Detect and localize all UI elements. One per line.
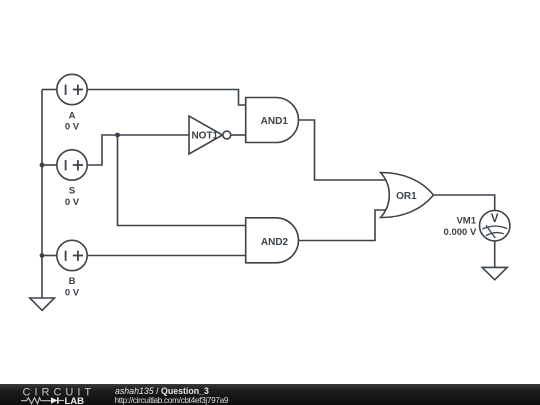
voltmeter VM1: [480, 211, 510, 241]
label VM1 value 0.000 V: [444, 227, 477, 238]
svg-text:AND2: AND2: [261, 237, 289, 248]
label B: [69, 276, 76, 287]
svg-text:0 V: 0 V: [65, 122, 80, 133]
svg-text:CIRCUIT: CIRCUIT: [23, 386, 96, 398]
wire junction to AND2 top input: [118, 135, 246, 226]
wire A left: [42, 89, 57, 91]
wire left rail: [41, 90, 43, 299]
logo CircuitLab: [21, 386, 95, 405]
label NOT1: [191, 131, 218, 142]
ground G2: [482, 267, 507, 279]
node junction S-NOT1: [115, 133, 120, 138]
wire A to AND1 top input: [87, 90, 246, 106]
svg-text:http://circuitlab.com/cbt4ef3j: http://circuitlab.com/cbt4ef3j797a9: [115, 395, 229, 405]
label OR1: [396, 191, 417, 202]
wire B left: [42, 255, 57, 257]
label AND2: [261, 237, 289, 248]
voltage source S: [57, 150, 87, 180]
footer title line: [115, 386, 209, 396]
label AND1: [261, 116, 289, 127]
label A: [69, 111, 76, 122]
voltage source A: [57, 74, 87, 104]
and-gate AND1: [246, 98, 299, 143]
label B value 0 V: [65, 288, 80, 299]
wire OR1 output to VM1: [434, 195, 495, 211]
label S value 0 V: [65, 197, 80, 208]
wire NOT1 output to AND1 bottom input: [231, 134, 246, 136]
wire AND1 output to OR1 top input: [299, 120, 390, 180]
node junction rail-B: [40, 253, 45, 258]
voltage source B: [57, 240, 87, 270]
wire AND2 output to OR1 bottom input: [299, 210, 390, 241]
wire S left: [42, 164, 57, 166]
svg-text:B: B: [69, 276, 76, 287]
and-gate AND2: [246, 218, 299, 263]
svg-text:OR1: OR1: [396, 191, 417, 202]
inverter NOT1: [189, 116, 231, 154]
svg-text:S: S: [69, 186, 75, 197]
footer bar: [0, 384, 540, 405]
svg-text:V: V: [491, 213, 499, 225]
label S: [69, 186, 75, 197]
svg-text:0 V: 0 V: [65, 288, 80, 299]
wire VM1 to ground: [494, 241, 496, 268]
label A value 0 V: [65, 122, 80, 133]
svg-text:NOT1: NOT1: [191, 131, 218, 142]
wire B to AND2 bottom input: [87, 255, 246, 257]
svg-text:0.000 V: 0.000 V: [444, 227, 477, 238]
wire S to NOT1 input: [87, 135, 189, 165]
svg-text:LAB: LAB: [65, 396, 85, 405]
node junction rail-S: [40, 163, 45, 168]
svg-text:A: A: [69, 111, 76, 122]
ground G1: [30, 298, 55, 310]
footer url line: [115, 395, 229, 405]
label VM1: [456, 215, 476, 226]
svg-text:VM1: VM1: [456, 215, 476, 226]
svg-text:0 V: 0 V: [65, 197, 80, 208]
svg-text:AND1: AND1: [261, 116, 289, 127]
or-gate OR1: [381, 172, 434, 217]
